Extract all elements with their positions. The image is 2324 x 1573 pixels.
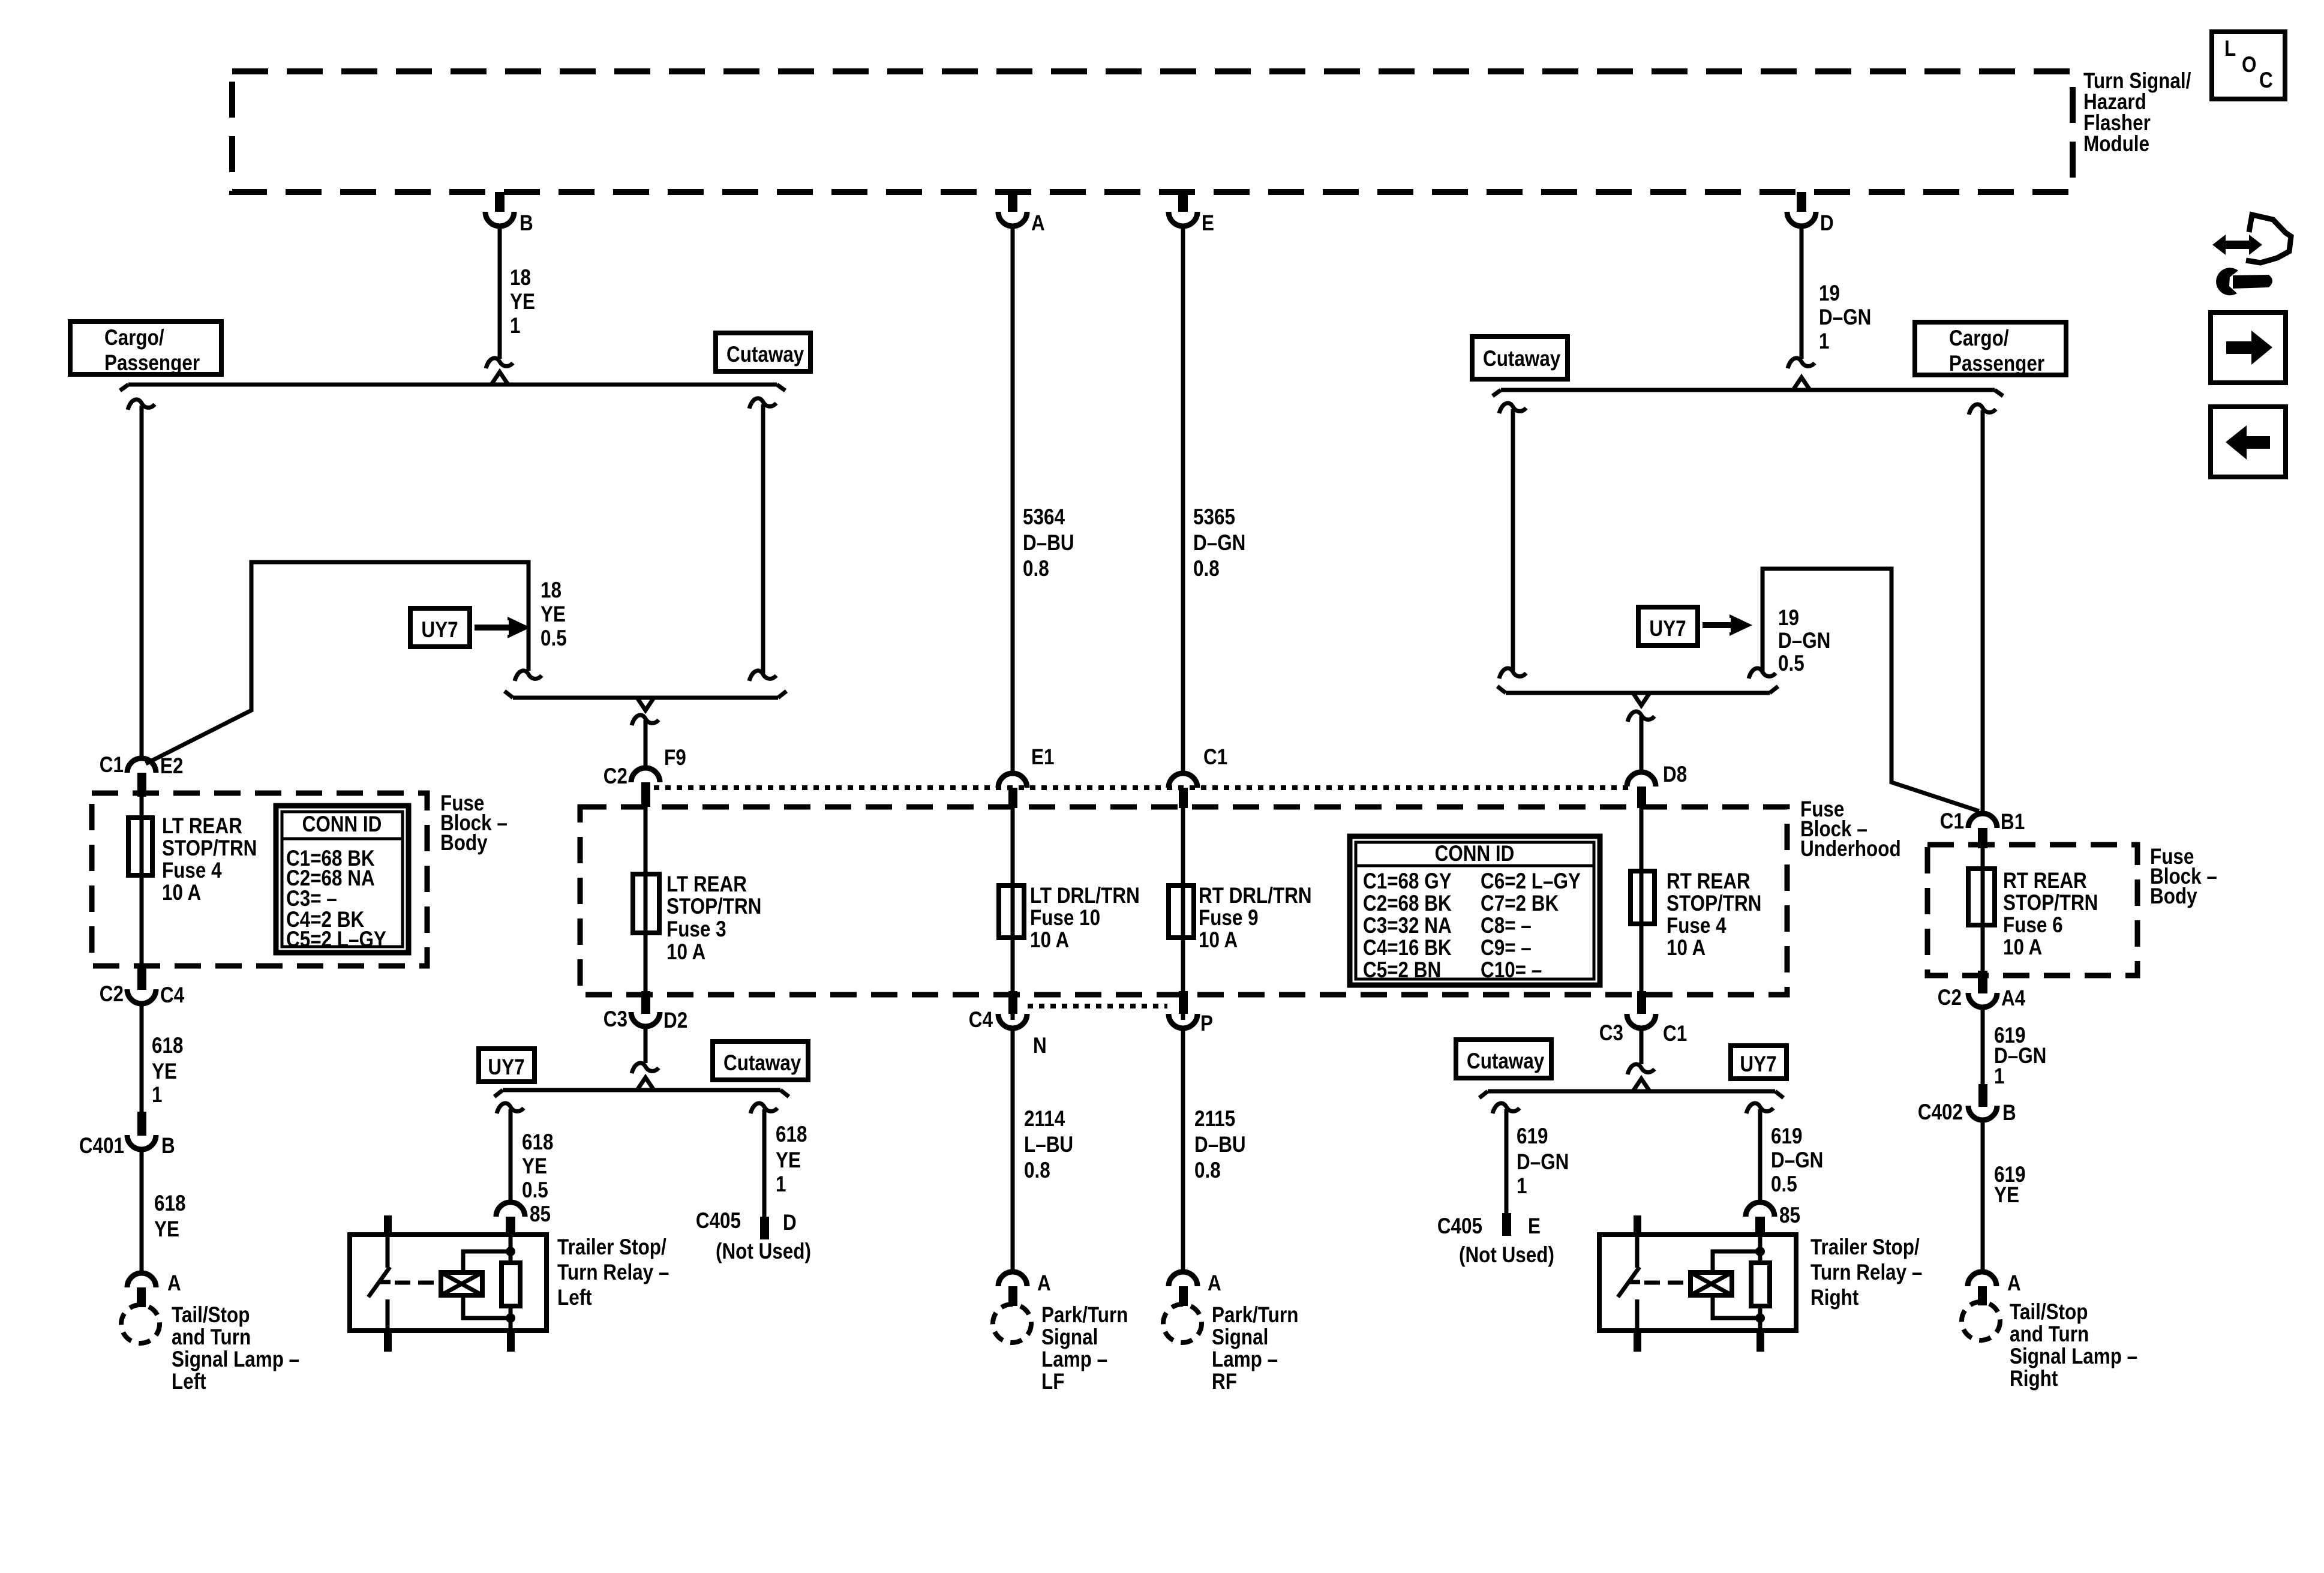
svg-text:85: 85 — [1779, 1203, 1800, 1228]
connector C1/E2 — [127, 758, 156, 797]
svg-text:D–GN: D–GN — [1517, 1150, 1569, 1175]
svg-text:0.5: 0.5 — [522, 1178, 548, 1203]
svg-text:Passenger: Passenger — [1949, 352, 2044, 376]
svg-text:B1: B1 — [2001, 810, 2025, 834]
svg-text:C2: C2 — [100, 982, 124, 1007]
svg-text:YE: YE — [541, 602, 566, 627]
svg-text:Cargo/: Cargo/ — [104, 326, 164, 350]
svg-text:Right: Right — [1810, 1286, 1859, 1310]
svg-text:C1: C1 — [1203, 745, 1227, 770]
connector C2/C4 — [127, 967, 156, 1004]
connector C2/A4 labels — [1938, 986, 2025, 1011]
svg-text:B: B — [161, 1134, 175, 1158]
svg-text:N: N — [1033, 1034, 1047, 1058]
wire from pin A circuit 5364 — [1011, 226, 1015, 775]
svg-text:UY7: UY7 — [488, 1055, 524, 1080]
svg-text:10 A: 10 A — [2003, 935, 2042, 960]
Fuse Block - Body right label — [2150, 845, 2217, 909]
svg-text:D–GN: D–GN — [1778, 629, 1830, 653]
svg-text:UY7: UY7 — [421, 618, 458, 643]
svg-text:C2: C2 — [1938, 986, 1962, 1010]
fuse 3 LT REAR STOP/TRN — [633, 874, 659, 933]
connector A at RF lamp — [1169, 1272, 1197, 1306]
wire C1 to P inside fuse block — [1181, 808, 1185, 1020]
svg-text:Left: Left — [557, 1286, 592, 1310]
svg-text:D–BU: D–BU — [1194, 1133, 1246, 1157]
wire label 618 YE — [154, 1191, 185, 1242]
wire label 618 YE 1 cutaway — [776, 1122, 807, 1197]
wire to C1/E2 (left cargo/passenger branch) — [128, 400, 155, 760]
UY7 arrow right — [1703, 614, 1752, 636]
Trailer Stop/Turn Relay - Right label — [1810, 1235, 1922, 1310]
svg-text:C405: C405 — [1437, 1214, 1482, 1239]
fuse 6 label — [2003, 869, 2098, 960]
svg-text:C7=2 BK: C7=2 BK — [1481, 891, 1559, 916]
connector A at left lamp — [127, 1273, 156, 1307]
svg-text:C4=16 BK: C4=16 BK — [1363, 936, 1452, 960]
in-line connector C401/B — [127, 1112, 156, 1149]
svg-text:85: 85 — [530, 1202, 551, 1227]
wire inside fuse block left — [140, 797, 144, 969]
wire 619 D-GN 1 right column — [1981, 1007, 1985, 1085]
svg-text:618: 618 — [522, 1130, 553, 1155]
svg-text:D8: D8 — [1663, 763, 1687, 787]
connector C2/A4 — [1968, 971, 1997, 1007]
fuse 4 RT REAR STOP/TRN underhood — [1631, 871, 1655, 924]
svg-text:Signal Lamp –: Signal Lamp – — [172, 1347, 299, 1372]
svg-text:Cutaway: Cutaway — [726, 343, 804, 367]
UY7 option box lower left — [479, 1049, 535, 1082]
svg-text:C3=32 NA: C3=32 NA — [1363, 914, 1452, 938]
Turn Signal/Hazard Flasher Module label — [2083, 69, 2191, 157]
connector 85 right relay — [1746, 1202, 1774, 1235]
wire E1 to C4 inside fuse block — [1011, 808, 1015, 1020]
connector C3/C1 labels — [1599, 1021, 1687, 1046]
svg-text:2114: 2114 — [1024, 1107, 1065, 1131]
svg-text:Fuse 4: Fuse 4 — [162, 858, 222, 883]
Park/Turn Signal Lamp - LF (bulb) — [993, 1304, 1031, 1343]
fuse 4 underhood label — [1667, 869, 1761, 960]
svg-text:UY7: UY7 — [1740, 1052, 1776, 1077]
fuse 6 RT REAR STOP/TRN — [1968, 869, 1995, 925]
connector C1/E2 labels — [100, 753, 184, 779]
svg-text:0.8: 0.8 — [1194, 1158, 1221, 1183]
wire 18 YE 0.5 corner path to UY7 tap — [146, 562, 542, 764]
svg-text:Fuse 4: Fuse 4 — [1667, 914, 1727, 938]
svg-text:Left: Left — [172, 1370, 206, 1394]
svg-text:Passenger: Passenger — [104, 351, 200, 376]
connector C1 underhood — [1169, 773, 1197, 808]
wire C4/N to LF lamp circuit 2114 — [1011, 1028, 1015, 1273]
svg-text:C5=2 L–GY: C5=2 L–GY — [286, 927, 386, 952]
svg-text:1: 1 — [1819, 329, 1829, 354]
svg-text:Fuse 10: Fuse 10 — [1030, 906, 1100, 930]
svg-text:B: B — [2002, 1101, 2016, 1125]
Cutaway branch label box upper right — [1472, 337, 1568, 379]
wire 618 YE 1 left column — [140, 1004, 144, 1113]
Fuse Block - Underhood dashed outline — [580, 807, 1787, 995]
dotted connector tie line N-P — [1028, 1004, 1167, 1008]
wire inside right fuse block — [1981, 848, 1985, 972]
UY7 option box mid right — [1638, 607, 1698, 646]
svg-text:D–GN: D–GN — [1193, 531, 1245, 556]
svg-text:C4: C4 — [969, 1008, 993, 1032]
svg-text:A: A — [1208, 1271, 1221, 1296]
svg-text:Tail/Stop: Tail/Stop — [2010, 1300, 2088, 1325]
connector E1 — [998, 773, 1027, 808]
svg-text:Fuse 6: Fuse 6 — [2003, 913, 2063, 938]
LOC legend box — [2212, 32, 2285, 99]
svg-text:Park/Turn: Park/Turn — [1041, 1303, 1128, 1328]
harness split bracket right (D wire) — [1493, 377, 2003, 396]
svg-text:Module: Module — [2083, 132, 2149, 157]
connector C401/B labels — [79, 1134, 175, 1158]
svg-text:D: D — [1820, 211, 1834, 236]
Cargo/Passenger branch label box left — [70, 322, 221, 376]
Turn Signal/Hazard Flasher Module dashed outline — [232, 71, 2073, 192]
svg-text:Cutaway: Cutaway — [1483, 347, 1560, 371]
svg-text:5365: 5365 — [1193, 505, 1235, 530]
lamp label right — [2010, 1300, 2137, 1391]
svg-text:A: A — [167, 1271, 181, 1296]
svg-text:and Turn: and Turn — [2010, 1322, 2089, 1347]
svg-text:E: E — [1528, 1214, 1541, 1239]
svg-text:19: 19 — [1819, 281, 1840, 306]
in-line connector C402/B — [1968, 1084, 1997, 1120]
svg-text:STOP/TRN: STOP/TRN — [1667, 891, 1761, 916]
svg-text:B: B — [520, 211, 533, 236]
svg-text:A: A — [1031, 211, 1045, 236]
svg-text:Lamp –: Lamp – — [1041, 1347, 1107, 1372]
wire into C2/F9 — [632, 715, 659, 770]
svg-text:C401: C401 — [79, 1134, 124, 1158]
svg-text:10 A: 10 A — [1667, 936, 1706, 960]
svg-text:10 A: 10 A — [162, 881, 201, 905]
Fuse Block - Body left dashed outline — [92, 793, 427, 966]
svg-text:L: L — [2224, 37, 2236, 61]
svg-text:YE: YE — [152, 1059, 177, 1084]
svg-text:10 A: 10 A — [1199, 928, 1238, 953]
wire 618 YE 1 to C405-D — [750, 1103, 777, 1217]
svg-text:0.8: 0.8 — [1023, 557, 1049, 581]
svg-text:D–GN: D–GN — [1771, 1148, 1823, 1173]
connector C3/D2 — [631, 991, 660, 1026]
svg-text:C402: C402 — [1918, 1100, 1963, 1125]
svg-text:0.5: 0.5 — [1778, 652, 1804, 676]
wire label 619 YE — [1994, 1163, 2025, 1208]
wire 619 D-GN 1 to C405-E — [1493, 1103, 1520, 1213]
connector C2/F9 labels — [603, 746, 686, 789]
svg-text:C10= –: C10= – — [1481, 958, 1542, 983]
svg-text:YE: YE — [522, 1154, 547, 1179]
Tail/Stop and Turn Signal Lamp - Right (bulb) — [1962, 1302, 2000, 1340]
svg-text:RT DRL/TRN: RT DRL/TRN — [1199, 884, 1312, 908]
svg-text:D: D — [783, 1211, 797, 1235]
svg-text:C3: C3 — [1599, 1021, 1623, 1046]
connector C4/N labels — [969, 1008, 1047, 1058]
svg-text:Fuse 3: Fuse 3 — [666, 917, 726, 942]
svg-text:F9: F9 — [664, 746, 686, 770]
connector C1/B1 — [1968, 813, 1997, 848]
svg-text:RT REAR: RT REAR — [1667, 869, 1750, 894]
wire cutaway branch left — [749, 398, 776, 681]
svg-text:RF: RF — [1212, 1370, 1237, 1394]
svg-text:Cutaway: Cutaway — [1467, 1049, 1544, 1074]
connector C3/D2 labels — [603, 1007, 687, 1033]
harness split bracket left (B wire) — [120, 372, 785, 391]
svg-text:YE: YE — [510, 290, 535, 314]
svg-text:0.5: 0.5 — [541, 626, 567, 651]
wire label 18 YE 1 — [510, 266, 535, 338]
svg-text:LF: LF — [1041, 1370, 1064, 1394]
harness split bracket below C3/C1 — [1479, 1079, 1783, 1098]
wire label 619 D-GN 1 — [1994, 1023, 2046, 1089]
svg-text:C5=2 BN: C5=2 BN — [1363, 958, 1441, 983]
svg-text:C2=68 BK: C2=68 BK — [1363, 891, 1452, 916]
pin A of flasher module — [998, 192, 1027, 226]
CONN ID table underhood — [1350, 836, 1600, 985]
fuse 3 label — [666, 872, 761, 965]
pin E of flasher module — [1169, 192, 1197, 226]
wire label 619 D-GN 0.5 — [1771, 1124, 1823, 1197]
svg-text:Body: Body — [440, 831, 488, 855]
Trailer Stop/Turn Relay - Left — [350, 1215, 547, 1352]
lamp label RF — [1212, 1303, 1298, 1394]
wire P to RF lamp circuit 2115 — [1181, 1028, 1185, 1273]
wire label 19 D-GN 1 — [1819, 281, 1871, 354]
svg-text:0.8: 0.8 — [1193, 557, 1220, 581]
svg-text:D–GN: D–GN — [1819, 305, 1871, 330]
svg-text:18: 18 — [541, 578, 562, 603]
lamp label LF — [1041, 1303, 1128, 1394]
svg-text:(Not Used): (Not Used) — [1459, 1243, 1554, 1268]
svg-text:Park/Turn: Park/Turn — [1212, 1303, 1298, 1328]
wire label 619 D-GN 1 cutaway — [1517, 1124, 1569, 1199]
svg-text:Body: Body — [2150, 884, 2197, 909]
svg-text:LT REAR: LT REAR — [666, 872, 747, 897]
svg-text:L–BU: L–BU — [1024, 1133, 1073, 1157]
svg-text:D–BU: D–BU — [1023, 531, 1074, 556]
fuse 10 LT DRL/TRN — [999, 885, 1024, 938]
svg-text:LT DRL/TRN: LT DRL/TRN — [1030, 884, 1140, 908]
svg-text:E1: E1 — [1031, 745, 1054, 770]
svg-text:P: P — [1200, 1011, 1213, 1036]
svg-text:CONN ID: CONN ID — [302, 812, 382, 837]
svg-text:C4: C4 — [160, 983, 184, 1008]
connector D8 — [1627, 772, 1656, 808]
UY7 option box mid left — [410, 608, 470, 647]
svg-text:STOP/TRN: STOP/TRN — [162, 836, 257, 861]
harness merge bracket to D8 — [1497, 686, 1778, 706]
svg-text:C1=68 GY: C1=68 GY — [1363, 869, 1452, 894]
wire label 618 YE 0.5 — [522, 1130, 553, 1203]
wire label 2115 D-BU 0.8 — [1194, 1107, 1246, 1183]
svg-text:C2: C2 — [603, 764, 627, 789]
fuse 4 label — [162, 814, 257, 905]
dotted connector tie line F9-E1-C1-D8 — [654, 785, 1632, 790]
Fuse Block - Body right dashed outline — [1927, 845, 2137, 975]
svg-text:18: 18 — [510, 266, 531, 290]
svg-text:and Turn: and Turn — [172, 1325, 251, 1350]
svg-text:0.5: 0.5 — [1771, 1172, 1797, 1197]
connector C402/B labels — [1918, 1100, 2016, 1125]
svg-text:E: E — [1202, 211, 1214, 236]
wire D8 to C3/C1 inside fuse block — [1640, 808, 1644, 996]
svg-text:C9= –: C9= – — [1481, 936, 1532, 960]
wire from pin E circuit 5365 — [1181, 226, 1185, 775]
svg-text:2115: 2115 — [1194, 1107, 1235, 1131]
svg-text:1: 1 — [1517, 1174, 1527, 1199]
svg-text:618: 618 — [154, 1191, 185, 1216]
svg-text:Signal: Signal — [1212, 1325, 1268, 1350]
connector A at LF lamp — [998, 1272, 1027, 1306]
svg-text:C1: C1 — [100, 753, 124, 778]
right turn arrow box — [2211, 313, 2286, 383]
wire to C1/B1 (right cargo/passenger branch) — [1969, 404, 1996, 816]
C405 E labels — [1437, 1214, 1554, 1268]
svg-text:10 A: 10 A — [1030, 928, 1069, 953]
UY7 option box lower right — [1731, 1046, 1786, 1079]
wire 618 YE lower left — [140, 1149, 144, 1274]
UY7 arrow left — [475, 617, 530, 638]
svg-text:Right: Right — [2010, 1367, 2058, 1391]
wire C3/C1 to split bracket right — [1628, 1028, 1655, 1074]
pin D of flasher module — [1787, 192, 1816, 226]
svg-text:C405: C405 — [696, 1209, 741, 1233]
svg-text:Signal Lamp –: Signal Lamp – — [2010, 1344, 2137, 1369]
wire label 19 D-GN 0.5 — [1778, 606, 1830, 676]
connector C2/F9 — [631, 768, 660, 807]
Cutaway branch label box upper left — [716, 333, 810, 371]
connector A at right lamp — [1968, 1272, 1996, 1305]
svg-text:A: A — [1037, 1271, 1051, 1296]
svg-text:Cutaway: Cutaway — [723, 1051, 801, 1076]
svg-text:19: 19 — [1778, 606, 1799, 631]
wire 618 YE 0.5 to relay pin 85 left — [497, 1103, 524, 1203]
wire label 5364 D-BU 0.8 — [1023, 505, 1074, 581]
wire from pin D — [1788, 226, 1815, 368]
svg-text:C: C — [2259, 68, 2273, 93]
fuse 10 label — [1030, 884, 1140, 953]
svg-text:(Not Used): (Not Used) — [716, 1239, 811, 1264]
connector C1/B1 labels — [1940, 809, 2025, 834]
harness merge bracket to F9 — [505, 691, 786, 710]
wire label 18 YE 0.5 — [541, 578, 567, 651]
svg-text:C6=2 L–GY: C6=2 L–GY — [1481, 869, 1581, 894]
Cutaway label box lower left — [713, 1041, 808, 1080]
svg-text:C8= –: C8= – — [1481, 914, 1532, 938]
svg-text:Turn Relay –: Turn Relay – — [557, 1260, 669, 1285]
svg-text:D2: D2 — [663, 1008, 687, 1033]
service icon (arrow, connector outline, wrench) — [2212, 215, 2291, 295]
Park/Turn Signal Lamp - RF (bulb) — [1163, 1304, 1202, 1343]
svg-text:YE: YE — [1994, 1183, 2019, 1208]
svg-text:Underhood: Underhood — [1800, 837, 1901, 861]
svg-text:Trailer Stop/: Trailer Stop/ — [1810, 1235, 1920, 1260]
connector C3/C1 — [1627, 991, 1656, 1028]
harness split bracket below C3/D2 — [494, 1077, 789, 1097]
svg-text:LT REAR: LT REAR — [162, 814, 242, 839]
svg-text:1: 1 — [776, 1172, 786, 1197]
connector P — [1169, 991, 1197, 1028]
Trailer Stop/Turn Relay - Left label — [557, 1235, 669, 1310]
wire label 5365 D-GN 0.8 — [1193, 505, 1245, 581]
svg-text:UY7: UY7 — [1649, 617, 1686, 641]
connector C2/C4 labels — [100, 982, 184, 1008]
svg-text:CONN ID: CONN ID — [1435, 842, 1515, 866]
Cutaway label box lower right — [1456, 1040, 1551, 1078]
svg-text:Fuse 9: Fuse 9 — [1199, 906, 1259, 930]
connector C4/N — [998, 991, 1027, 1028]
fuse 9 label — [1199, 884, 1312, 953]
svg-text:1: 1 — [510, 314, 520, 338]
fuse 9 RT DRL/TRN — [1169, 885, 1194, 938]
svg-text:Turn Relay –: Turn Relay – — [1810, 1260, 1922, 1285]
wire 619 D-GN 0.5 to relay pin 85 right — [1746, 1103, 1773, 1203]
svg-text:Lamp –: Lamp – — [1212, 1347, 1278, 1372]
svg-text:C1: C1 — [1663, 1022, 1687, 1046]
wire C3/D2 to split bracket — [632, 1026, 659, 1073]
svg-text:STOP/TRN: STOP/TRN — [2003, 891, 2098, 915]
wire 619 YE right column — [1981, 1120, 1985, 1273]
svg-text:C3: C3 — [603, 1007, 627, 1032]
Fuse Block - Underhood label — [1800, 797, 1901, 861]
left turn arrow box — [2211, 407, 2286, 477]
svg-text:STOP/TRN: STOP/TRN — [666, 894, 761, 919]
Cargo/Passenger branch label box right — [1915, 322, 2066, 376]
svg-text:5364: 5364 — [1023, 505, 1065, 530]
pin B of flasher module — [485, 192, 514, 226]
wire label 2114 L-BU 0.8 — [1024, 1107, 1073, 1183]
wire 19 D-GN 0.5 corner path from UY7 tap — [1749, 569, 1979, 811]
wire cutaway branch right — [1499, 403, 1526, 679]
svg-text:Cargo/: Cargo/ — [1949, 326, 2009, 351]
svg-text:A: A — [2007, 1271, 2021, 1296]
CONN ID table left — [276, 806, 409, 953]
svg-text:618: 618 — [152, 1034, 183, 1058]
connector 85 left relay — [496, 1202, 525, 1235]
terminal C405 pin D (not used) — [760, 1217, 769, 1239]
svg-text:YE: YE — [154, 1217, 179, 1242]
wire label 618 YE 1 — [152, 1034, 183, 1107]
lamp label left — [172, 1303, 299, 1394]
svg-text:619: 619 — [1517, 1124, 1548, 1149]
svg-text:YE: YE — [776, 1148, 801, 1173]
fuse 4 LT REAR STOP/TRN — [128, 818, 152, 875]
C405 D labels — [696, 1209, 811, 1264]
svg-text:0.8: 0.8 — [1024, 1158, 1050, 1183]
Trailer Stop/Turn Relay - Right — [1599, 1215, 1796, 1352]
svg-text:RT REAR: RT REAR — [2003, 869, 2087, 893]
wire into D8 — [1628, 712, 1655, 770]
Fuse Block - Body left label — [440, 791, 508, 855]
wire from pin B — [486, 226, 513, 368]
svg-text:618: 618 — [776, 1122, 807, 1147]
svg-text:O: O — [2242, 53, 2256, 77]
svg-text:Trailer Stop/: Trailer Stop/ — [557, 1235, 666, 1260]
terminal C405 pin E (not used) — [1502, 1213, 1511, 1236]
wire F9 to C3/D2 inside fuse block — [644, 807, 648, 996]
svg-text:1: 1 — [1994, 1064, 2004, 1089]
svg-text:Tail/Stop: Tail/Stop — [172, 1303, 250, 1328]
svg-text:Signal: Signal — [1041, 1325, 1098, 1350]
svg-text:C1: C1 — [1940, 809, 1964, 834]
svg-text:A4: A4 — [2001, 986, 2025, 1011]
svg-text:10 A: 10 A — [666, 940, 705, 965]
svg-text:619: 619 — [1771, 1124, 1802, 1149]
svg-text:1: 1 — [152, 1083, 162, 1107]
Tail/Stop and Turn Signal Lamp - Left (bulb) — [121, 1305, 160, 1343]
